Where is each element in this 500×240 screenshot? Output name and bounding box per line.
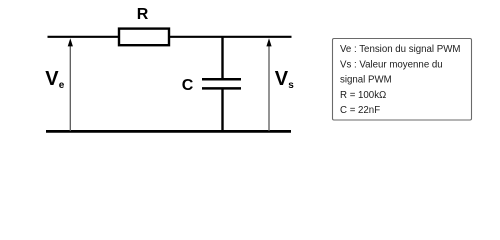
voltage arrow Ve (69, 45, 71, 132)
wire bottom rail (46, 130, 291, 133)
svg-text:Vs : Valeur moyenne du: Vs : Valeur moyenne du (340, 59, 443, 70)
svg-text:signal PWM: signal PWM (340, 75, 392, 86)
svg-text:V: V (275, 68, 289, 90)
wire capacitor bottom lead (221, 89, 223, 131)
svg-text:R = 100kΩ: R = 100kΩ (340, 90, 386, 101)
legend box (333, 39, 472, 121)
svg-text:C: C (182, 77, 194, 94)
voltage arrow Vs (268, 45, 270, 132)
capacitor C (202, 78, 241, 81)
svg-text:R: R (137, 6, 149, 23)
svg-text:V: V (45, 68, 59, 90)
svg-text:s: s (288, 80, 294, 91)
svg-text:e: e (59, 80, 65, 91)
wire capacitor top lead (221, 37, 223, 79)
svg-text:C = 22nF: C = 22nF (340, 105, 380, 116)
resistor R (119, 29, 169, 46)
wire top rail (48, 36, 292, 38)
svg-text:Ve : Tension du signal PWM: Ve : Tension du signal PWM (340, 44, 460, 55)
